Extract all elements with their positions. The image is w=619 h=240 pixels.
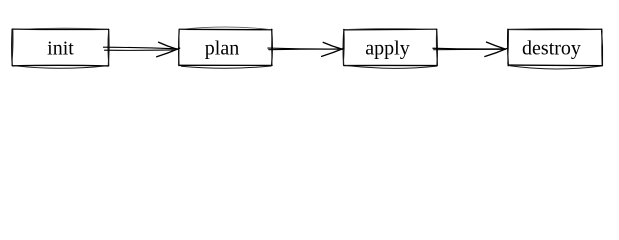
svg-text:init: init bbox=[47, 38, 74, 60]
svg-text:destroy: destroy bbox=[522, 38, 581, 60]
svg-text:plan: plan bbox=[205, 38, 239, 60]
svg-text:apply: apply bbox=[365, 38, 409, 60]
